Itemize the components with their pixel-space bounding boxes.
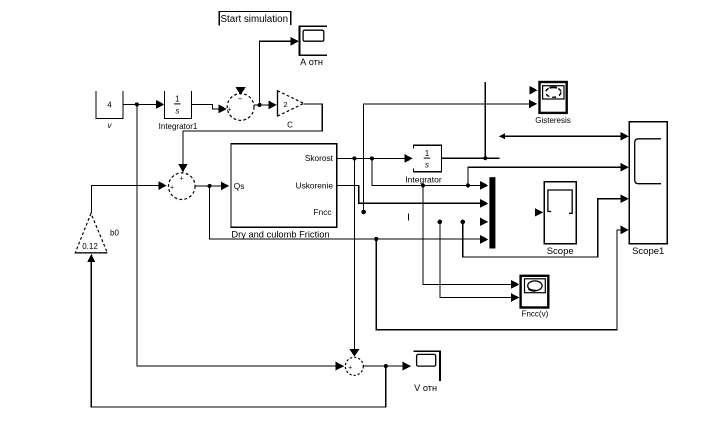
node junction on Sum2 output xyxy=(208,184,212,188)
node junction on Sum1 output xyxy=(258,103,262,107)
svg-text:Fncc: Fncc xyxy=(314,207,332,217)
svg-text:s: s xyxy=(175,107,179,116)
wire vertical from Integrator output junction up xyxy=(484,82,486,158)
wire Sum2 output branch down to Mux input4 rail xyxy=(210,186,489,244)
sum block Sum1 xyxy=(227,94,254,121)
node junction rail A at x423 xyxy=(421,183,425,187)
node junction on V output xyxy=(135,102,139,106)
node junction on Mux4 rail xyxy=(374,237,378,241)
node junction Skorost 2 xyxy=(370,156,374,160)
wire Sum1 top bare arrow xyxy=(235,87,245,95)
wire Skorost branch down to Sum3 top xyxy=(349,158,359,356)
wire branch up to Scope1 input2 xyxy=(468,163,629,186)
svg-text:+: + xyxy=(180,176,184,183)
wire stray tick xyxy=(408,214,410,221)
svg-text:Integrator1: Integrator1 xyxy=(159,122,198,131)
scope block Scope1 xyxy=(629,122,667,257)
svg-text:C: C xyxy=(287,121,293,130)
svg-text:Dry and culomb Friction: Dry and culomb Friction xyxy=(231,230,329,240)
wire Skorost branch to Mux input1 xyxy=(372,158,489,189)
svg-text:1: 1 xyxy=(425,149,430,158)
svg-text:s: s xyxy=(425,161,429,170)
svg-text:Integrator: Integrator xyxy=(405,175,442,185)
subsystem block Dry and culomb Friction xyxy=(231,144,337,240)
mux Mux xyxy=(489,177,495,248)
wire constant V branch down to Sum3 left xyxy=(137,104,344,370)
svg-text:Scope: Scope xyxy=(547,246,574,257)
svg-text:V отн: V отн xyxy=(414,383,437,393)
svg-text:Fncc(v): Fncc(v) xyxy=(522,310,549,319)
scope block Scope xyxy=(544,182,576,258)
xy graph block Fncc(v) xyxy=(521,276,549,319)
wire Scope1 input1 with reverse arrowhead xyxy=(499,132,629,141)
gain block b0 value 0.12 xyxy=(75,213,119,253)
wire Sum1 output to Gain C xyxy=(254,101,277,110)
svg-text:Start simulation: Start simulation xyxy=(221,14,289,25)
wire constant V to Integrator1 xyxy=(123,100,164,109)
sum block Sum2 xyxy=(169,173,196,200)
svg-text:−: − xyxy=(238,95,243,104)
gain block C value 2 xyxy=(278,90,304,129)
svg-text:1: 1 xyxy=(175,95,180,104)
xy graph block Gisteresis xyxy=(535,82,571,125)
wire Mux output bare arrowhead into Scope xyxy=(535,208,544,217)
svg-text:+: + xyxy=(227,107,231,114)
integrator block Integrator xyxy=(405,145,442,184)
wire Sum3 output branch to gain b0 input xyxy=(88,254,386,407)
wire Gain C feedback to Sum2 top xyxy=(178,104,322,173)
scope block V otn xyxy=(413,351,440,393)
wire Sum2 output to Qs port xyxy=(195,182,229,191)
integrator block Integrator1 xyxy=(159,91,198,131)
wire Uskorenie port to Mux input2 xyxy=(337,186,489,208)
svg-text:А отн: А отн xyxy=(300,57,323,67)
node junction rail A at x468 xyxy=(466,183,470,187)
wire Sum3 output to scope V otn xyxy=(363,362,411,371)
svg-text:Uskorenie: Uskorenie xyxy=(296,180,334,190)
wire Integrator1 to Sum1 xyxy=(192,104,227,113)
sum block Sum3 xyxy=(345,357,363,375)
svg-text:Scope1: Scope1 xyxy=(632,246,664,257)
wire Sum1 output branch up to scope A otn xyxy=(260,37,299,105)
svg-text:Skorost: Skorost xyxy=(305,153,334,163)
annotation Start simulation xyxy=(219,12,291,26)
svg-text:Gisteresis: Gisteresis xyxy=(535,116,571,125)
svg-text:b0: b0 xyxy=(110,229,119,238)
wire gain b0 output to Sum2 left xyxy=(92,181,167,213)
wire branch down to Fncc(v) input1 xyxy=(423,185,520,288)
wire Integrator output xyxy=(442,156,500,160)
svg-text:4: 4 xyxy=(107,101,112,110)
scope block A otn xyxy=(299,26,327,67)
constant block V value 4 xyxy=(96,91,123,130)
node junction on Sum3 output xyxy=(384,364,388,368)
svg-text:0.12: 0.12 xyxy=(82,242,98,251)
wire dangling node near Fncc port up to Gisteresis input2 xyxy=(361,100,537,215)
wire dangling rail to Fncc(v) input2 xyxy=(438,220,520,302)
wire Gisteresis input1 bare arrowhead xyxy=(530,86,538,95)
svg-text:Qs: Qs xyxy=(234,181,245,191)
node junction Skorost 1 xyxy=(352,156,356,160)
svg-text:+: + xyxy=(348,364,352,371)
svg-text:2: 2 xyxy=(283,100,287,109)
svg-text:+: + xyxy=(170,184,174,191)
wire dangling rail to Scope1 input3 xyxy=(461,194,629,257)
wire Mux input3 bare arrowhead xyxy=(480,218,488,227)
wire Skorost port output xyxy=(337,154,413,163)
wire branch to Scope1 input4 xyxy=(376,226,629,330)
